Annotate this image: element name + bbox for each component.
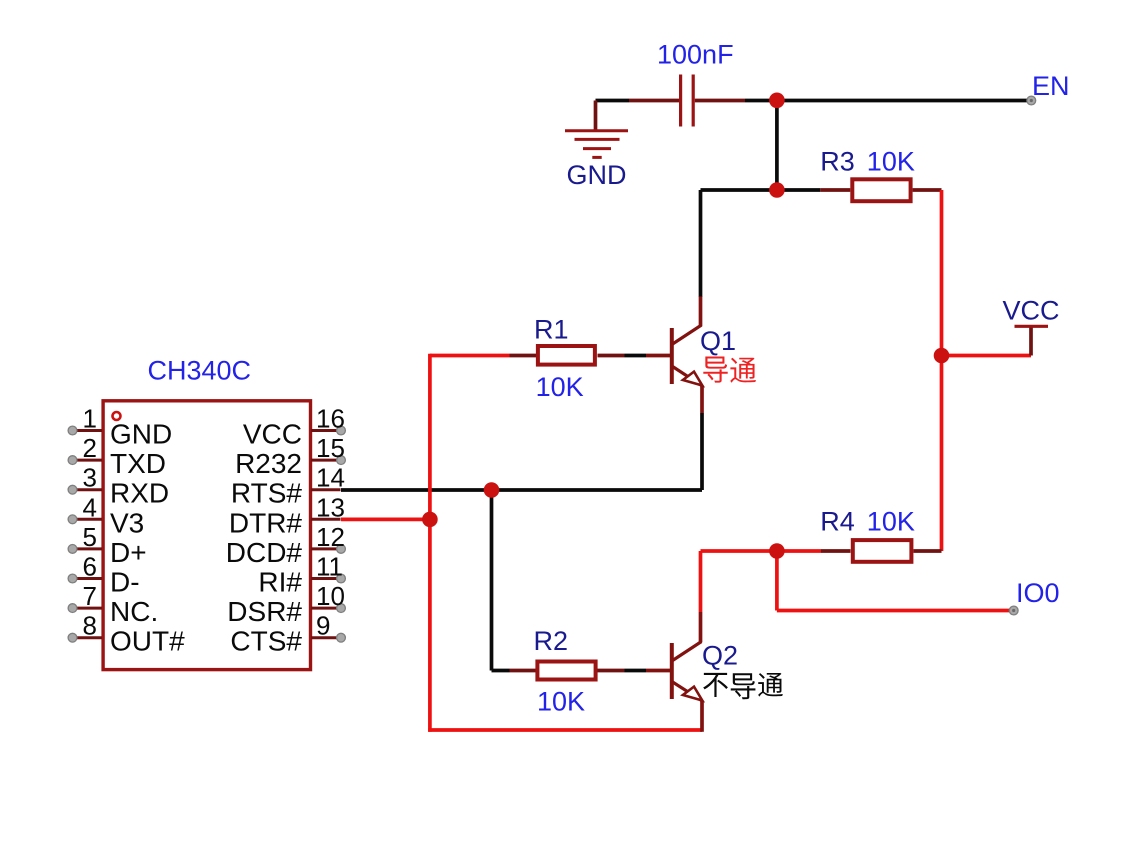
svg-text:NC.: NC. — [110, 596, 158, 627]
svg-text:RI#: RI# — [258, 567, 302, 598]
svg-text:R4: R4 — [820, 506, 855, 536]
wire DTR rail to R1 — [430, 354, 510, 358]
svg-text:EN: EN — [1032, 71, 1070, 101]
wire collector to R4 — [701, 549, 777, 553]
svg-text:6: 6 — [83, 552, 97, 582]
svg-text:VCC: VCC — [1003, 296, 1060, 326]
pin 8 OUT# — [68, 611, 185, 657]
wire junction down to IO0 — [775, 551, 779, 611]
svg-text:Q1: Q1 — [700, 326, 736, 356]
wire Q1 emitter down — [700, 413, 704, 490]
svg-text:8: 8 — [83, 611, 97, 641]
node EN junction — [769, 93, 785, 109]
svg-text:10: 10 — [316, 581, 345, 611]
svg-text:V3: V3 — [110, 507, 144, 538]
svg-text:2: 2 — [83, 433, 97, 463]
svg-text:R3: R3 — [820, 147, 855, 177]
svg-text:10K: 10K — [537, 687, 585, 717]
node R2 junction — [484, 482, 500, 498]
svg-text:R1: R1 — [534, 315, 569, 345]
svg-text:10K: 10K — [867, 147, 915, 177]
pin 6 D- — [68, 552, 139, 598]
IC U1 CH340C — [103, 356, 310, 670]
pin 13 DTR# — [229, 492, 345, 538]
svg-text:OUT#: OUT# — [110, 626, 185, 657]
ground — [565, 101, 628, 191]
svg-text:5: 5 — [83, 522, 97, 552]
pin 16 VCC — [243, 404, 346, 450]
pin 9 CTS# — [230, 611, 345, 657]
svg-text:R232: R232 — [235, 448, 302, 479]
svg-text:VCC: VCC — [243, 419, 302, 450]
pin 5 D+ — [68, 522, 146, 568]
label budaotong (not conducting) — [703, 673, 783, 699]
resistor R3 — [820, 147, 941, 202]
wire DTR# pin13 — [341, 518, 430, 522]
svg-text:CTS#: CTS# — [230, 626, 302, 657]
wire horizontal to Q1 collector — [701, 188, 821, 192]
wire RTS# pin14 — [341, 488, 702, 492]
terminal pin IO0 — [1009, 578, 1059, 615]
svg-text:TXD: TXD — [110, 448, 166, 479]
svg-text:DSR#: DSR# — [227, 596, 302, 627]
wire bottom to Q2 emitter — [428, 728, 702, 732]
wire gnd-to-cap — [596, 99, 630, 103]
svg-text:IO0: IO0 — [1016, 578, 1060, 608]
svg-text:DCD#: DCD# — [226, 537, 303, 568]
pin 15 R232 — [235, 433, 345, 479]
node DTR junction — [422, 512, 438, 528]
svg-text:GND: GND — [567, 160, 627, 190]
transistor Q2 — [646, 612, 738, 732]
terminal pin EN — [1027, 71, 1070, 105]
svg-text:15: 15 — [316, 433, 345, 463]
power flag VCC — [1003, 296, 1060, 356]
capacitor C1 100nF — [629, 40, 745, 127]
wire node-to-EN — [777, 99, 1027, 103]
svg-text:1: 1 — [83, 404, 97, 434]
wire junction to R4 — [777, 549, 821, 553]
pin 10 DSR# — [227, 581, 345, 627]
svg-text:Q2: Q2 — [702, 641, 738, 671]
resistor R1 — [510, 315, 625, 403]
wire cap-to-node — [745, 99, 770, 103]
svg-text:RTS#: RTS# — [231, 478, 302, 509]
svg-text:100nF: 100nF — [657, 40, 734, 70]
svg-text:GND: GND — [110, 419, 172, 450]
pin 12 DCD# — [226, 522, 346, 568]
pin 7 NC. — [68, 581, 158, 627]
svg-text:RXD: RXD — [110, 478, 169, 509]
transistor Q1 — [646, 297, 736, 414]
node IO0 junction — [769, 543, 785, 559]
svg-text:4: 4 — [83, 492, 97, 522]
wire to VCC — [942, 354, 1032, 358]
svg-text:R2: R2 — [534, 626, 569, 656]
pin 1 GND — [68, 404, 172, 450]
pin 11 RI# — [258, 552, 345, 598]
wire to IO0 terminal — [777, 609, 1010, 613]
wire DTR rail vertical — [428, 354, 432, 732]
pin 4 V3 — [68, 492, 144, 538]
svg-text:D+: D+ — [110, 537, 147, 568]
svg-text:CH340C: CH340C — [148, 356, 252, 386]
wire down to R2 — [490, 490, 494, 671]
svg-text:10K: 10K — [536, 372, 584, 402]
wire R1 to Q1 base — [625, 354, 647, 358]
svg-text:3: 3 — [83, 463, 97, 493]
svg-text:13: 13 — [316, 492, 345, 522]
svg-text:16: 16 — [316, 404, 345, 434]
resistor R2 — [510, 626, 625, 717]
svg-text:D-: D- — [110, 567, 140, 598]
wire down to Q1 — [699, 190, 703, 297]
node junction 2 — [769, 182, 785, 198]
svg-text:12: 12 — [316, 522, 345, 552]
pin 14 RTS# — [231, 463, 345, 509]
node VCC junction — [934, 348, 950, 364]
svg-text:10K: 10K — [867, 506, 915, 536]
svg-text:14: 14 — [316, 463, 345, 493]
svg-text:DTR#: DTR# — [229, 507, 303, 538]
resistor R4 — [820, 506, 941, 562]
svg-text:9: 9 — [316, 611, 330, 641]
wire node down — [775, 101, 779, 191]
svg-text:11: 11 — [316, 552, 343, 582]
svg-text:7: 7 — [83, 581, 97, 611]
wire R3 to VCC rail — [940, 190, 944, 551]
label daotong (conducting) — [703, 356, 756, 382]
wire R2 to Q2 base — [625, 669, 647, 673]
pin 2 TXD — [68, 433, 166, 479]
pin 3 RXD — [68, 463, 169, 509]
wire Q2 collector up — [699, 551, 703, 612]
